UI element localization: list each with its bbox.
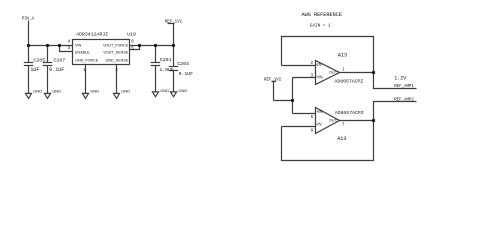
svg-text:OUT: OUT xyxy=(329,118,338,123)
ground (C287) xyxy=(44,93,50,98)
wire VIN rail xyxy=(29,45,73,47)
svg-text:GND: GND xyxy=(178,88,187,93)
wire GND_FORCE pin 1 xyxy=(85,65,87,94)
wire pin 2 xyxy=(282,65,316,67)
capacitor C291 xyxy=(151,46,160,92)
wire VOUT_SENSE jog pin 5 xyxy=(130,46,140,50)
capacitor C285 xyxy=(24,46,33,94)
ground (C285) xyxy=(25,93,31,98)
junction C291 xyxy=(154,44,157,47)
junction pin5 jog xyxy=(138,44,141,47)
junction output A13 bottom xyxy=(372,119,375,122)
wire pin 5 xyxy=(293,113,316,115)
svg-text:ADR3412ARJZ: ADR3412ARJZ xyxy=(76,31,108,37)
svg-text:-IN: -IN xyxy=(316,62,322,67)
svg-text:+IN: +IN xyxy=(316,75,323,80)
svg-text:GND: GND xyxy=(33,88,42,93)
wire top feedback rail xyxy=(282,37,374,73)
junction output A13 top xyxy=(372,71,375,74)
wire VOUT rail xyxy=(130,45,174,47)
capacitor C287 xyxy=(43,46,52,94)
svg-text:C291: C291 xyxy=(160,57,172,63)
capacitor C293 xyxy=(169,46,178,92)
svg-text:6: 6 xyxy=(311,128,314,133)
svg-text:2: 2 xyxy=(115,67,118,72)
svg-text:OUT: OUT xyxy=(329,70,338,75)
wire pin 3 xyxy=(293,77,316,79)
power flag P3V_A xyxy=(28,21,30,46)
wire ENABLE jog xyxy=(60,46,73,52)
wire output pin 1 xyxy=(340,72,374,74)
voltage reference U19 box xyxy=(73,40,130,65)
junction ENABLE xyxy=(58,44,61,47)
svg-text:AWG REFERENCE: AWG REFERENCE xyxy=(302,12,342,18)
svg-text:GND_SENSE: GND_SENSE xyxy=(105,58,128,62)
svg-text:GND: GND xyxy=(121,88,130,93)
svg-text:1.2V: 1.2V xyxy=(394,75,406,81)
svg-text:0.1UF: 0.1UF xyxy=(49,67,64,73)
op-amp A13 top xyxy=(316,61,340,85)
svg-text:4: 4 xyxy=(68,39,71,44)
svg-text:ENABLE: ENABLE xyxy=(75,50,90,54)
junction REF_1V2 split xyxy=(291,99,294,102)
net REF_1V2 (left) xyxy=(168,24,175,46)
wire REF_AMP2 stub xyxy=(374,102,417,121)
svg-text:2: 2 xyxy=(311,60,314,65)
wire +IN distribution xyxy=(292,78,294,114)
junction C293/REF_1V2 xyxy=(172,44,175,47)
svg-text:GAIN = 1: GAIN = 1 xyxy=(310,24,331,29)
svg-text:GND: GND xyxy=(160,88,169,93)
wire GND_SENSE pin 2 xyxy=(116,65,118,94)
svg-text:REF_AMP2: REF_AMP2 xyxy=(394,99,414,103)
ground (C291) xyxy=(152,92,158,97)
svg-text:GND: GND xyxy=(52,88,61,93)
svg-text:1UF: 1UF xyxy=(30,67,39,73)
svg-text:C285: C285 xyxy=(33,57,45,63)
svg-text:1.0UF: 1.0UF xyxy=(159,67,174,73)
junction C287 xyxy=(46,44,49,47)
svg-text:REF_AMP1: REF_AMP1 xyxy=(394,85,414,89)
ground (pin 2) xyxy=(113,93,119,98)
svg-text:VIN: VIN xyxy=(75,43,81,47)
svg-text:P3V_A: P3V_A xyxy=(22,17,35,21)
wire bottom feedback rail xyxy=(282,121,374,161)
svg-text:A13: A13 xyxy=(338,52,347,58)
svg-text:-IN: -IN xyxy=(316,122,322,127)
svg-text:AD8657ACPZ: AD8657ACPZ xyxy=(335,78,364,84)
net REF_1V2 (right) xyxy=(272,82,293,101)
op-amp A13 bottom xyxy=(316,108,340,134)
junction P3V_A/C285 xyxy=(27,44,30,47)
ground (pin 1) xyxy=(82,93,88,98)
svg-text:+IN: +IN xyxy=(316,109,323,114)
wire REF_AMP1 stub xyxy=(374,73,417,89)
wire pin 6 xyxy=(282,126,316,128)
svg-text:GND_FORCE: GND_FORCE xyxy=(75,58,99,62)
svg-text:7: 7 xyxy=(342,121,345,126)
ground (C293) xyxy=(170,92,176,97)
svg-text:C293: C293 xyxy=(177,61,189,67)
svg-text:GND: GND xyxy=(90,88,99,93)
svg-text:6: 6 xyxy=(131,39,134,44)
svg-text:U19: U19 xyxy=(127,31,136,37)
wire output pin 7 xyxy=(340,120,374,122)
svg-text:0.1UF: 0.1UF xyxy=(179,71,194,77)
svg-text:REF_1V2: REF_1V2 xyxy=(165,20,183,24)
svg-text:3: 3 xyxy=(311,73,314,78)
svg-text:AD8657ACPZ: AD8657ACPZ xyxy=(335,110,364,116)
svg-text:REF_1V2: REF_1V2 xyxy=(264,79,282,83)
svg-text:1: 1 xyxy=(342,67,345,72)
svg-text:5: 5 xyxy=(311,114,314,119)
svg-text:C287: C287 xyxy=(54,57,66,63)
svg-text:VOUT_FORCE: VOUT_FORCE xyxy=(103,43,129,47)
svg-text:A13: A13 xyxy=(337,136,346,142)
svg-text:VOUT_SENSE: VOUT_SENSE xyxy=(103,50,128,54)
